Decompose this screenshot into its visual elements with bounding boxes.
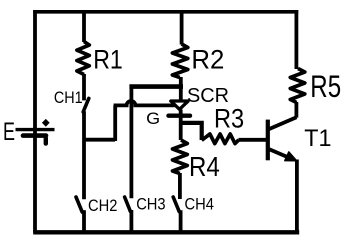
wire right rail down to R5 — [294, 10, 298, 69]
wire gate riser — [113, 105, 117, 141]
resistor R4 — [173, 140, 188, 174]
battery stub mark — [44, 138, 48, 144]
wire R1 branch upper lead — [82, 10, 86, 42]
wire cathode tee to R3 elbow — [181, 123, 202, 140]
svg-text:CH1: CH1 — [54, 89, 83, 107]
wire CH3 to bottom rail — [129, 210, 133, 233]
wire R3 to base — [239, 138, 267, 142]
svg-text:R2: R2 — [191, 45, 224, 75]
switch CH4 blade — [173, 197, 179, 212]
svg-text:R4: R4 — [189, 151, 220, 182]
transistor T1 emitter arrowhead — [285, 152, 297, 161]
resistor R3 — [202, 134, 239, 144]
svg-text:E: E — [3, 118, 15, 146]
svg-text:R5: R5 — [310, 68, 341, 104]
svg-text:CH2: CH2 — [88, 197, 117, 215]
svg-text:G: G — [146, 110, 160, 128]
wire left rail — [33, 10, 37, 233]
wire gate tap horizontal — [83, 138, 115, 142]
svg-text:T1: T1 — [304, 125, 331, 152]
resistor R2 — [172, 44, 187, 78]
SCR cathode bar — [169, 113, 191, 117]
switch CH2 blade — [76, 197, 82, 212]
wire top rail — [33, 10, 298, 14]
wire anode cross link — [129, 84, 183, 89]
wire bottom rail — [33, 230, 299, 234]
wire CH4 to bottom rail — [179, 210, 183, 232]
svg-text:R1: R1 — [93, 44, 123, 74]
wire emitter to bottom rail — [295, 160, 299, 233]
resistor R5 — [290, 69, 305, 103]
resistor R1 — [77, 42, 89, 75]
wire R2 branch upper lead — [180, 10, 184, 45]
wire CH3 branch — [129, 85, 133, 198]
svg-text:CH3: CH3 — [136, 196, 165, 214]
battery polarity diamond dot — [42, 119, 50, 127]
battery E long plate — [16, 128, 55, 131]
wire CH2 to bottom rail — [82, 210, 86, 232]
wire R2 to SCR anode — [179, 77, 183, 100]
wire R4 to CH4 — [178, 173, 182, 199]
switch CH3 blade — [125, 197, 131, 211]
switch CH1 blade — [83, 98, 89, 111]
svg-text:R3: R3 — [214, 103, 244, 133]
SCR U1 triangle — [171, 101, 188, 109]
transistor T1 base bar — [266, 120, 270, 161]
wire gate with hop over CH3 branch — [114, 101, 175, 105]
transistor T1 emitter — [268, 149, 292, 159]
transistor T1 collector — [268, 117, 297, 129]
battery E short plate — [23, 133, 46, 138]
wire CH1 to CH2 — [82, 111, 86, 199]
wire R5 to collector — [294, 102, 298, 118]
svg-text:CH4: CH4 — [185, 196, 214, 214]
wire R1 to CH1 — [82, 74, 86, 100]
wire SCR cathode down — [179, 110, 183, 141]
